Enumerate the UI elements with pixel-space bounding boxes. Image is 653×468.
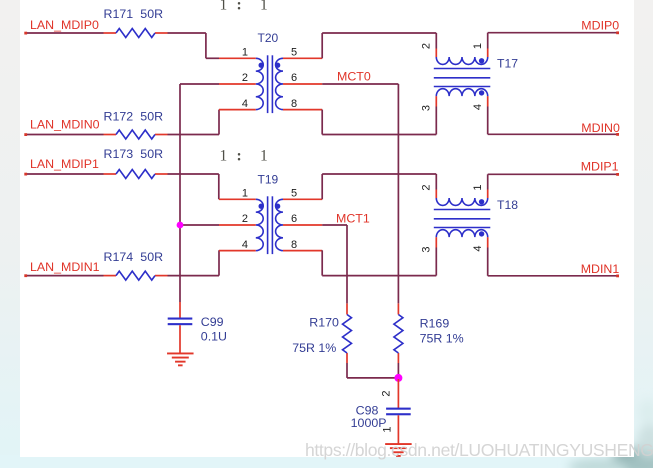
transformer T19 [219,196,322,254]
ratio label 1 : 1 (middle) [220,148,268,165]
label R172 50R [104,109,164,123]
wire T18 pin1 to MDIP1 [488,174,619,189]
svg-text:3: 3 [421,246,433,252]
choke T18 [434,190,491,248]
label R171 50R [104,7,164,21]
svg-text:R171: R171 [104,7,134,21]
wire LAN_MDIN1 left segment [25,275,104,277]
svg-text:MCT0: MCT0 [337,70,371,84]
svg-text:1: 1 [472,184,484,190]
wire R173 to T19 pin1 [168,174,219,199]
wire LAN_MDIP0 left segment [25,32,104,34]
resistor R174 [104,271,168,280]
svg-text:50R: 50R [140,250,163,264]
svg-text:1: 1 [472,43,484,49]
svg-text:50R: 50R [140,147,163,161]
svg-text:1: 1 [382,426,394,432]
svg-text:T18: T18 [497,198,518,212]
svg-text:MDIP0: MDIP0 [581,18,619,32]
capacitor C99 pin 1 [179,302,181,318]
capacitor C98 pin 2 [397,379,399,408]
svg-text:https://blog.csdn.net/LUOHUATI: https://blog.csdn.net/LUOHUATINGYUSHENG [305,440,653,460]
svg-text::: : [237,0,242,14]
wire T18 pin4 to MDIN1 [488,248,619,276]
wire R171 to T20 pin1 [168,33,220,58]
svg-text:4: 4 [242,98,248,110]
svg-text:2: 2 [421,184,433,190]
wire LAN_MDIN0 left segment [25,134,104,136]
svg-text:75R 1%: 75R 1% [292,341,336,355]
svg-text:8: 8 [291,98,297,110]
label R173 50R [104,147,164,161]
svg-text:1: 1 [260,0,268,14]
svg-text:2: 2 [242,72,248,84]
svg-text:4: 4 [472,104,484,110]
svg-text:LAN_MDIP0: LAN_MDIP0 [30,18,99,32]
ground (C99) [167,353,194,367]
svg-text:4: 4 [242,239,248,251]
svg-text:6: 6 [291,72,297,84]
wire R172 to T20 pin4 [168,110,220,135]
transformer T20 [219,55,322,113]
label R169 75R 1% [420,317,464,346]
capacitor C99 pin 2 [179,325,181,353]
svg-text:2: 2 [421,43,433,49]
svg-text:MDIN1: MDIN1 [581,262,620,276]
resistor R172 [104,130,168,139]
capacitor C98 pin 1 [397,415,399,444]
svg-text:1: 1 [220,0,228,14]
svg-text:2: 2 [381,390,393,396]
svg-text:75R 1%: 75R 1% [420,332,464,346]
svg-text:R172: R172 [104,109,134,123]
wire T20 pin8 to T17 pin3 [322,107,436,135]
svg-text:T20: T20 [258,31,279,45]
ground (C98) [385,443,412,457]
svg-text:1: 1 [242,188,248,200]
wire centre tap (T20 pin2 / T19 pin2 to C99) [180,84,219,302]
svg-text:T19: T19 [258,173,279,187]
capacitor C99 [168,318,193,326]
node dangling markers on net stubs [24,31,619,277]
label C98 1000P [351,404,387,431]
wire T17 pin1 to MDIP0 [488,33,619,49]
ratio label 1 : 1 (top) [220,0,268,14]
svg-text:2: 2 [242,213,248,225]
junction node at T19 pin2 [177,222,184,229]
label C99 0.1U [201,315,227,344]
svg-text::: : [237,148,242,165]
svg-text:T17: T17 [497,57,518,71]
wire T19 pin8 to T18 pin3 [322,248,436,276]
svg-text:1: 1 [220,148,228,165]
svg-text:R174: R174 [104,250,134,264]
label R174 50R [104,250,164,264]
svg-text:50R: 50R [140,7,163,21]
capacitor C98 [386,408,411,416]
choke T17 [434,49,491,107]
svg-text:LAN_MDIN0: LAN_MDIN0 [30,118,100,132]
wire R170 to junction [347,363,398,378]
svg-text:MDIN0: MDIN0 [581,121,620,135]
wire T17 pin4 to MDIN0 [488,107,619,135]
svg-text:5: 5 [291,188,297,200]
label R170 75R 1% [292,316,339,355]
wire MCT1 (T19 pin6 to R170) [322,225,347,303]
svg-text:4: 4 [472,245,484,251]
svg-text:5: 5 [291,47,297,59]
svg-text:1: 1 [242,47,248,59]
svg-text:LAN_MDIP1: LAN_MDIP1 [30,157,99,171]
resistor R171 [104,29,168,38]
svg-text:3: 3 [421,105,433,111]
svg-text:0.1U: 0.1U [201,330,227,344]
svg-text:R173: R173 [104,147,134,161]
resistor R173 [104,170,168,179]
resistor R169 [394,304,403,364]
svg-text:8: 8 [291,239,297,251]
svg-text:6: 6 [291,213,297,225]
wire T19 pin5 to T18 pin2 [322,174,436,199]
svg-text:R169: R169 [420,317,450,331]
wire T20 pin5 to T17 pin2 [322,33,436,58]
svg-text:LAN_MDIN1: LAN_MDIN1 [30,260,100,274]
svg-text:1: 1 [260,148,268,165]
wire R169 to junction [397,363,399,378]
svg-text:MCT1: MCT1 [336,212,370,226]
wire MCT0 (T20 pin6 to R169) [322,84,398,303]
svg-text:50R: 50R [140,109,163,123]
resistor R170 [343,304,352,364]
svg-text:R170: R170 [309,316,339,330]
svg-text:MDIP1: MDIP1 [581,159,619,173]
junction node at C98 [394,374,402,382]
wire LAN_MDIP1 left segment [25,173,104,175]
wire R174 to T19 pin4 [168,250,220,275]
svg-text:C99: C99 [201,315,224,329]
